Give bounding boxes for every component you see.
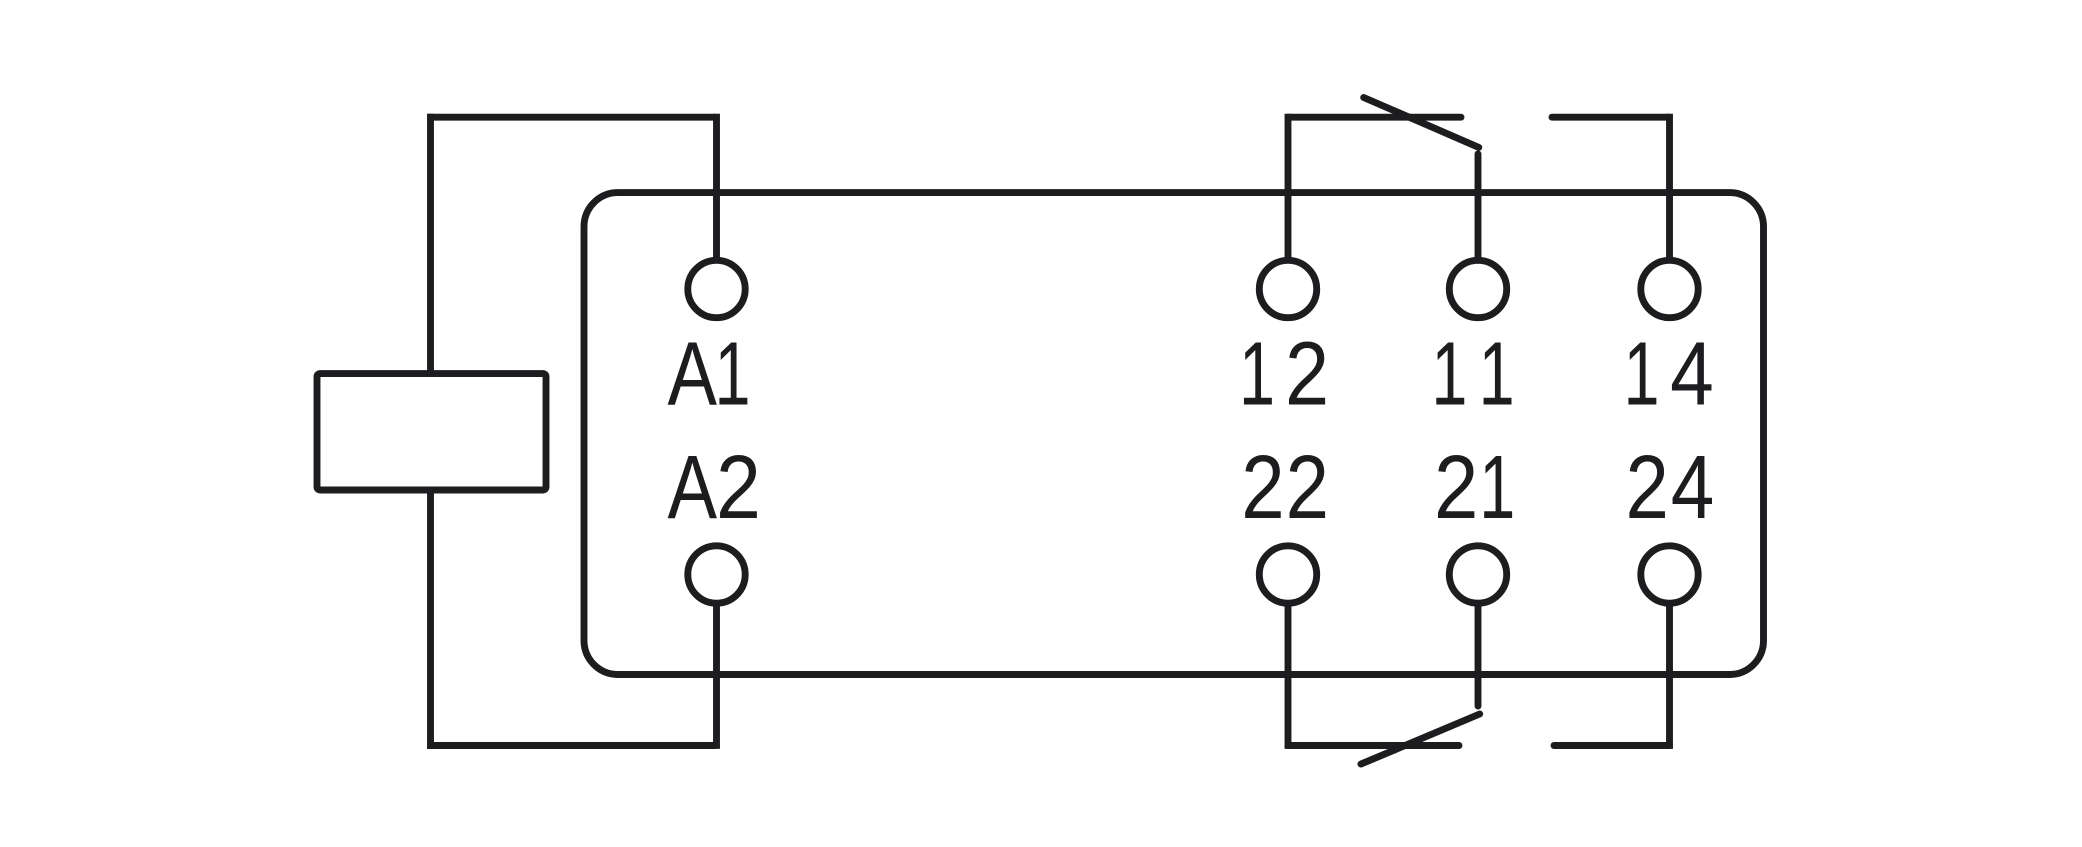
wire coil-bottom vertical	[427, 490, 434, 749]
svg-text:1: 1	[1479, 437, 1515, 538]
pin label A1	[668, 323, 751, 424]
svg-text:1: 1	[1479, 323, 1515, 424]
svg-text:2: 2	[1286, 437, 1329, 537]
svg-text:2: 2	[1434, 438, 1478, 539]
terminal A2	[688, 546, 745, 603]
wire coil-top horizontal	[427, 114, 716, 121]
svg-text:4: 4	[1670, 323, 1714, 423]
svg-text:2: 2	[1626, 437, 1669, 537]
terminal 12	[1259, 260, 1316, 317]
relay body outline	[584, 193, 1764, 675]
terminal 21	[1449, 546, 1506, 603]
terminal 24	[1641, 546, 1698, 603]
svg-text:2: 2	[1285, 323, 1329, 424]
svg-text:1: 1	[1624, 323, 1660, 424]
pin label 24	[1626, 437, 1715, 537]
wire 12 vertical	[1285, 114, 1292, 260]
pin label 22	[1241, 437, 1329, 537]
svg-text:1: 1	[1431, 323, 1467, 424]
pin label 14	[1624, 323, 1714, 424]
wire 12 horizontal	[1288, 114, 1461, 121]
wire 11 vertical	[1475, 154, 1482, 260]
terminal 11	[1449, 260, 1506, 317]
terminal 22	[1259, 546, 1316, 603]
wire 22 vertical	[1285, 603, 1292, 749]
wire A1 drop	[713, 114, 720, 260]
coil K1	[317, 374, 546, 490]
svg-text:4: 4	[1671, 437, 1715, 537]
pin label 11	[1431, 323, 1514, 424]
svg-text:1: 1	[715, 323, 751, 424]
pin label A2	[668, 437, 761, 538]
svg-text:2: 2	[716, 438, 761, 538]
contact blade bottom (NC 21-22)	[1361, 714, 1480, 764]
contact blade top (NC 11-12)	[1364, 98, 1479, 148]
wire 21 vertical	[1475, 603, 1482, 706]
svg-text:1: 1	[1239, 323, 1275, 424]
wire coil-left vertical	[427, 114, 434, 374]
svg-text:A: A	[668, 324, 718, 424]
terminal A1	[688, 260, 745, 317]
pin label 21	[1434, 437, 1515, 539]
pin label 12	[1239, 323, 1329, 424]
wire 14 horizontal	[1552, 114, 1670, 121]
wire 22 horizontal	[1288, 742, 1459, 749]
wire A2 riser	[713, 603, 720, 749]
svg-text:2: 2	[1241, 437, 1284, 537]
terminal 14	[1641, 260, 1698, 317]
wire coil-bottom horizontal	[427, 742, 716, 749]
wire 24 horizontal	[1554, 742, 1670, 749]
wire 14 vertical	[1666, 114, 1673, 260]
svg-text:A: A	[668, 437, 718, 537]
wire 24 vertical	[1666, 603, 1673, 749]
